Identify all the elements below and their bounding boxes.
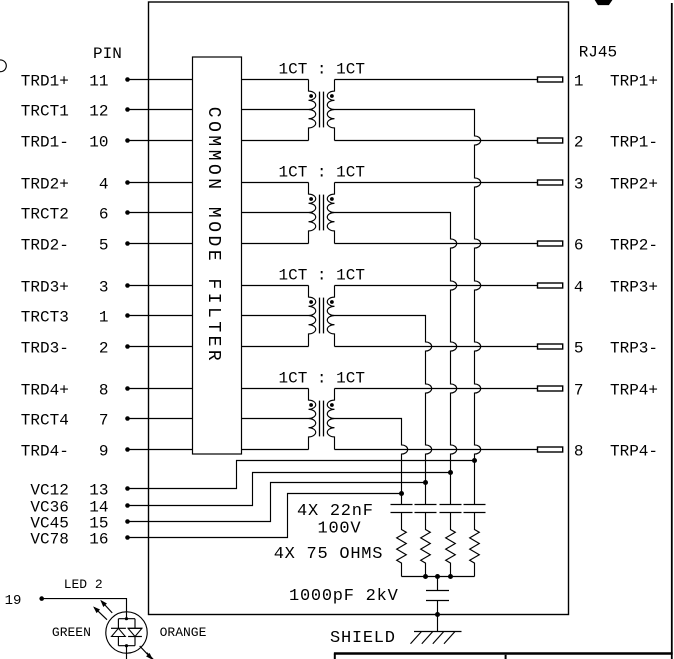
- resistor R2 75 ohms: [446, 513, 456, 577]
- logo mark (cropped): [595, 0, 612, 5]
- svg-text:SHIELD: SHIELD: [330, 629, 396, 648]
- junction at module outline: [435, 612, 440, 617]
- svg-text:1: 1: [99, 308, 109, 326]
- svg-text:GREEN: GREEN: [52, 625, 91, 640]
- junction VC12 to center-tap vertical: [472, 458, 477, 463]
- svg-text:1CT : 1CT: 1CT : 1CT: [279, 164, 365, 182]
- svg-text:TRP2-: TRP2-: [610, 236, 658, 254]
- svg-text:TRCT4: TRCT4: [21, 411, 69, 429]
- wire T3 center-tap to RC branch (with crossover hops): [335, 316, 432, 505]
- transformer T2 1CT:1CT: [242, 164, 365, 244]
- svg-text:1000pF 2kV: 1000pF 2kV: [289, 587, 399, 606]
- svg-text:100V: 100V: [318, 520, 362, 539]
- svg-text:8: 8: [574, 442, 584, 460]
- pin TRCT2 (6): [21, 205, 193, 223]
- pin TRD4- (9): [21, 442, 193, 460]
- title block left edge: [334, 654, 336, 659]
- title block top border: [334, 652, 673, 655]
- module outline box: [149, 2, 569, 615]
- svg-text:VC12: VC12: [30, 481, 68, 499]
- svg-text:3: 3: [99, 278, 109, 296]
- pin TRD4+ (8): [21, 381, 193, 399]
- svg-text:RJ45: RJ45: [579, 44, 617, 62]
- svg-text:9: 9: [99, 442, 109, 460]
- svg-text:TRP3-: TRP3-: [610, 339, 658, 357]
- wire net TRP3+ (T3 top to terminal): [335, 285, 538, 287]
- svg-text:PIN: PIN: [93, 45, 122, 63]
- svg-text:19: 19: [5, 593, 22, 609]
- sheet right border: [671, 3, 673, 659]
- partial circle symbol at left edge: [0, 60, 6, 72]
- svg-text:5: 5: [574, 339, 584, 357]
- svg-text:6: 6: [99, 205, 109, 223]
- capacitor C4 22nF: [391, 505, 413, 513]
- svg-text:COMMON MODE FILTER: COMMON MODE FILTER: [203, 107, 223, 364]
- svg-text:TRD2-: TRD2-: [21, 236, 69, 254]
- transformer T1 1CT:1CT: [242, 61, 365, 141]
- svg-text:4: 4: [99, 175, 109, 193]
- terminal pad 2 (TRP1-): [538, 133, 659, 151]
- wire net TRP1- (T1 bottom to terminal): [335, 140, 538, 142]
- svg-text:4: 4: [574, 278, 584, 296]
- svg-text:TRD4+: TRD4+: [21, 381, 69, 399]
- svg-text:TRP1-: TRP1-: [610, 133, 658, 151]
- svg-text:LED 2: LED 2: [64, 577, 103, 592]
- transformer T4 1CT:1CT: [242, 370, 365, 450]
- svg-text:1CT : 1CT: 1CT : 1CT: [279, 61, 365, 79]
- terminal pad 3 (TRP2+): [538, 175, 659, 193]
- svg-text:4X 75 OHMS: 4X 75 OHMS: [274, 545, 384, 564]
- capacitor C3 22nF: [415, 505, 437, 513]
- svg-text:1CT : 1CT: 1CT : 1CT: [279, 370, 365, 388]
- title block divider: [505, 655, 507, 659]
- terminal pad 6 (TRP2-): [538, 236, 659, 254]
- terminal pad 7 (TRP4+): [538, 381, 659, 399]
- wire T4 center-tap to RC branch (with crossover hops): [335, 419, 408, 505]
- pin TRD1+ (11): [21, 72, 193, 90]
- wire net TRP4- (T4 bottom to terminal): [335, 449, 538, 451]
- svg-text:TRD3+: TRD3+: [21, 278, 69, 296]
- terminal pad 8 (TRP4-): [538, 442, 659, 460]
- svg-text:1: 1: [574, 72, 584, 90]
- svg-text:TRD1+: TRD1+: [21, 72, 69, 90]
- LED light emission arrows upper left: [94, 601, 112, 620]
- svg-text:2: 2: [99, 339, 109, 357]
- svg-text:1CT : 1CT: 1CT : 1CT: [279, 267, 365, 285]
- resistor R1 75 ohms: [470, 513, 480, 577]
- svg-text:6: 6: [574, 236, 584, 254]
- wire T1 center-tap to RC branch (with crossover hops): [335, 110, 481, 505]
- svg-text:10: 10: [89, 133, 108, 151]
- wire net TRP4+ (T4 top to terminal): [335, 388, 538, 390]
- pin VC45 (15) wire to center-tap net: [30, 483, 425, 533]
- svg-text:TRCT2: TRCT2: [21, 205, 69, 223]
- wire T2 center-tap to RC branch (with crossover hops): [335, 213, 457, 505]
- wire net TRP2- (T2 bottom to terminal): [335, 243, 538, 245]
- wire net TRP3- (T3 bottom to terminal): [335, 346, 538, 348]
- pin TRCT4 (7): [21, 411, 193, 429]
- resistor R3 75 ohms: [421, 513, 431, 577]
- pin TRD3+ (3): [21, 278, 193, 296]
- junction dots on rail: [423, 574, 428, 579]
- capacitor C2 22nF: [440, 505, 462, 513]
- junction VC36 to center-tap vertical: [448, 470, 453, 475]
- chassis ground symbol (shield): [411, 632, 462, 644]
- pin TRD2+ (4): [21, 175, 193, 193]
- resistor R4 75 ohms: [397, 513, 407, 577]
- svg-text:TRP1+: TRP1+: [610, 72, 658, 90]
- svg-text:2: 2: [574, 133, 584, 151]
- LED2 bicolor LED: [106, 612, 147, 659]
- capacitor C1 22nF: [464, 505, 486, 513]
- svg-text:3: 3: [574, 175, 584, 193]
- svg-text:7: 7: [99, 411, 109, 429]
- pin VC36 (14) wire to center-tap net: [30, 473, 450, 517]
- transformer T3 1CT:1CT: [242, 267, 365, 347]
- terminal pad 4 (TRP3+): [538, 278, 659, 296]
- svg-text:TRD4-: TRD4-: [21, 442, 69, 460]
- capacitor C5 1000pF 2kV: [426, 577, 449, 632]
- svg-text:TRP3+: TRP3+: [610, 278, 658, 296]
- svg-text:VC78: VC78: [30, 530, 68, 548]
- svg-text:TRP4-: TRP4-: [610, 442, 658, 460]
- pin TRD3- (2): [21, 339, 193, 357]
- terminal pad 5 (TRP3-): [538, 339, 659, 357]
- svg-text:TRD3-: TRD3-: [21, 339, 69, 357]
- wire net TRP2+ (T2 top to terminal): [335, 182, 538, 184]
- svg-text:8: 8: [99, 381, 109, 399]
- junction VC78 to center-tap vertical: [399, 491, 404, 496]
- svg-text:TRD2+: TRD2+: [21, 175, 69, 193]
- pin TRCT1 (12): [21, 102, 193, 120]
- junction VC45 to center-tap vertical: [423, 480, 428, 485]
- pin VC78 (16) wire to center-tap net: [30, 494, 401, 549]
- svg-text:12: 12: [89, 102, 108, 120]
- wire net TRP1+ (T1 top to terminal): [335, 79, 538, 81]
- svg-text:4X 22nF: 4X 22nF: [297, 502, 374, 521]
- svg-text:TRP2+: TRP2+: [610, 175, 658, 193]
- svg-text:TRCT1: TRCT1: [21, 102, 69, 120]
- svg-text:11: 11: [89, 72, 108, 90]
- pin TRD2- (5): [21, 236, 193, 254]
- svg-text:16: 16: [89, 530, 108, 548]
- pin 19 wire to LED: [5, 593, 127, 619]
- svg-text:5: 5: [99, 236, 109, 254]
- terminal pad 1 (TRP1+): [538, 72, 659, 90]
- pin TRD1- (10): [21, 133, 193, 151]
- svg-text:TRP4+: TRP4+: [610, 381, 658, 399]
- pin TRCT3 (1): [21, 308, 193, 326]
- LED light emission arrows lower right: [140, 646, 159, 659]
- svg-text:7: 7: [574, 381, 584, 399]
- common mode filter block: [193, 57, 242, 454]
- svg-text:ORANGE: ORANGE: [160, 625, 207, 640]
- pin VC12 (13) wire to center-tap net: [30, 461, 474, 500]
- svg-text:TRD1-: TRD1-: [21, 133, 69, 151]
- svg-text:13: 13: [89, 481, 108, 499]
- svg-text:TRCT3: TRCT3: [21, 308, 69, 326]
- ground rail wire: [402, 576, 475, 578]
